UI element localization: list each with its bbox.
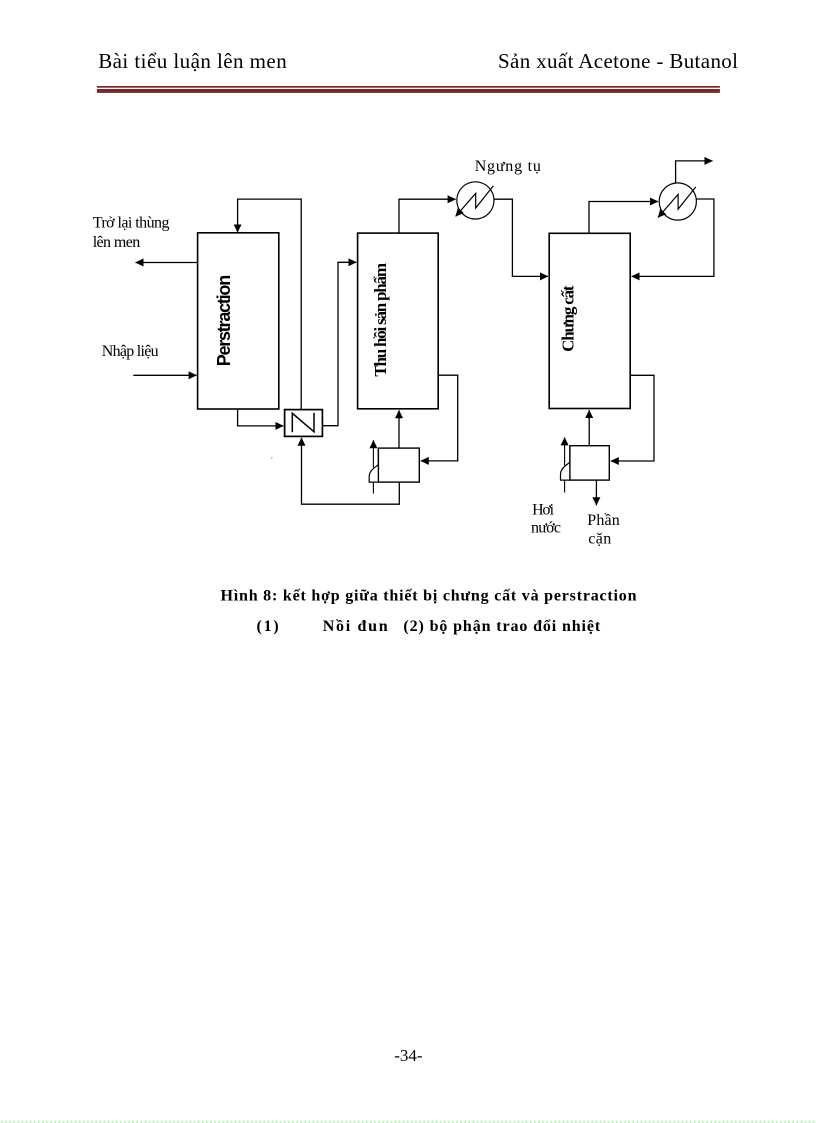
arrow feed in (Nhap lieu) [133, 374, 196, 376]
svg-text:-34-: -34- [394, 1046, 423, 1065]
svg-text:Thu hồi sản phẩm: Thu hồi sản phẩm [371, 263, 390, 377]
membrane module box (2) [285, 410, 323, 437]
condenser C1 coil with coolant arrow [456, 186, 494, 217]
svg-text:Phần: Phần [587, 512, 620, 529]
svg-text:Sản xuất Acetone - Butanol: Sản xuất Acetone - Butanol [498, 49, 738, 73]
svg-text:Hình 8: kết hợp giữa thiết bị: Hình 8: kết hợp giữa thiết bị chưng cất … [221, 587, 637, 604]
wire Chung cat bottoms to reboiler R2 [611, 375, 654, 461]
svg-text:Chưng cất: Chưng cất [559, 285, 578, 352]
wire recycle loop membrane top to Perstraction top [238, 199, 302, 410]
wire reboiler R1 vapor to Thu hoi bottom [398, 410, 400, 448]
reboiler R1 steam stub [372, 482, 374, 493]
wire Perstraction bottom to membrane left [238, 409, 284, 426]
page break dotted line [1, 1121, 816, 1123]
svg-text:Perstraction: Perstraction [214, 275, 234, 367]
svg-text:(1): (1) [257, 618, 279, 635]
box Thu hoi san pham [358, 233, 439, 409]
wire reboiler R1 out to membrane bottom [302, 438, 400, 504]
reboiler R1 vent arrow [372, 440, 374, 468]
svg-text:lên men: lên men [93, 234, 141, 251]
reboiler R1 flag [369, 448, 378, 482]
wire reboiler R2 vapor to Chung cat bottom [588, 410, 590, 446]
condenser C2 coil with coolant arrow [658, 187, 696, 218]
membrane N glyph [292, 413, 314, 432]
condenser C1 circle [457, 182, 494, 219]
wire Chung cat top to condenser C2 [589, 202, 658, 234]
header rule thin [97, 86, 720, 88]
wire condenser C2 top product out [676, 161, 713, 183]
svg-text:Nồi đun: Nồi đun [323, 618, 388, 635]
speck artifact [271, 457, 273, 459]
svg-text:Hơi: Hơi [532, 502, 555, 519]
reboiler R2 flag [561, 446, 571, 480]
wire membrane right to Thu hoi left [322, 262, 356, 425]
svg-text:Ngưng tụ: Ngưng tụ [475, 158, 541, 175]
svg-text:Trở lại thùng: Trở lại thùng [93, 214, 170, 231]
wire Thu hoi bottoms to reboiler R1 [421, 375, 458, 461]
reboiler R2 vent arrow [564, 437, 566, 465]
arrow bottoms product out (Phan can) [595, 480, 597, 505]
reboiler R2 body [570, 446, 609, 480]
svg-text:cặn: cặn [588, 531, 611, 548]
header rule thick [97, 89, 720, 93]
svg-text:Nhập liệu: Nhập liệu [102, 343, 159, 360]
condenser C2 circle [659, 183, 696, 220]
wire condenser C1 to Chung cat left [494, 199, 548, 276]
reboiler R1 body [378, 448, 419, 482]
reboiler R2 steam stub [564, 480, 566, 492]
svg-text:(2) bộ phận trao đổi nhiệt: (2) bộ phận trao đổi nhiệt [403, 618, 600, 635]
wire Thu hoi top to condenser C1 [399, 199, 456, 233]
box Perstraction [198, 233, 279, 409]
arrow out to fermenter (Tro lai thung len men) [136, 262, 198, 264]
wire condenser C2 reflux to Chung cat right [632, 199, 714, 276]
svg-text:nước: nước [531, 520, 561, 537]
box Chung cat [549, 233, 630, 408]
svg-text:Bài tiểu luận lên men: Bài tiểu luận lên men [98, 49, 287, 73]
